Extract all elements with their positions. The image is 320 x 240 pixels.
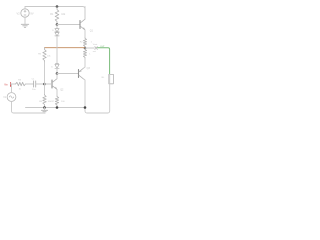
svg-text:out: out bbox=[93, 50, 96, 53]
transistor Q2 (driver NPN) bbox=[52, 74, 57, 97]
wire R3 to C1 bbox=[26, 83, 34, 85]
resistor R5 (feedback upper) bbox=[43, 48, 46, 62]
wire D3 to node bbox=[56, 68, 58, 73]
transistor Q1 (NPN) bbox=[80, 7, 85, 38]
wire node to Q3 base bbox=[57, 73, 78, 75]
voltage source V2 bbox=[21, 9, 29, 17]
node driver collector bbox=[56, 72, 59, 75]
svg-text:9V: 9V bbox=[30, 11, 33, 15]
node output bbox=[84, 47, 87, 50]
wire node to Q2 base bbox=[45, 83, 52, 85]
wire V2 top stub bbox=[24, 7, 26, 9]
resistor R6 (feedback lower) bbox=[44, 84, 46, 95]
wire V1 bottom bbox=[12, 101, 45, 113]
node R1 bottom bbox=[56, 23, 59, 26]
wire C1 to base node bbox=[36, 83, 45, 85]
node Q2 base bbox=[43, 83, 46, 86]
wire flag to R3 bbox=[11, 83, 16, 85]
wire V2 bottom stub bbox=[24, 17, 26, 24]
resistor R2 (Q1 emitter) bbox=[83, 38, 86, 48]
node rail R6 bbox=[43, 106, 46, 109]
diode D2 bbox=[55, 33, 59, 36]
resistor R4 (Q3 emitter) bbox=[83, 48, 86, 59]
wire load bottom bbox=[85, 74, 110, 113]
diode D3 bbox=[55, 64, 59, 69]
wire bottom rail bbox=[26, 107, 86, 109]
wire OUT net (green) bbox=[98, 48, 110, 75]
capacitor C1 bbox=[34, 81, 36, 87]
voltage source V1 (AC) bbox=[7, 93, 16, 102]
wire node to Q1 base bbox=[57, 24, 80, 26]
svg-text:Vout: Vout bbox=[93, 43, 98, 46]
svg-text:OUT: OUT bbox=[100, 46, 105, 48]
load RL box bbox=[109, 74, 114, 83]
resistor R7 (Q2 emitter) bbox=[55, 96, 58, 108]
wire V1 top bbox=[10, 84, 13, 93]
wire node to probe bbox=[85, 47, 94, 49]
wire diode chain bbox=[56, 36, 58, 64]
wire R5 to node bbox=[44, 62, 46, 84]
resistor R3 (input) bbox=[16, 82, 26, 85]
wire output node (orange) bbox=[45, 47, 86, 49]
probe X marker bbox=[95, 47, 98, 50]
node rail Q3 collector bbox=[84, 106, 87, 109]
diode D1 bbox=[55, 25, 59, 32]
ground on rail bbox=[41, 108, 47, 114]
svg-text:V2: V2 bbox=[17, 11, 21, 15]
net flag Vin (red) bbox=[10, 83, 12, 87]
wire top rail bbox=[25, 7, 85, 19]
transistor Q3 (PNP) bbox=[79, 59, 86, 108]
node top rail / R1 bbox=[56, 5, 59, 8]
node rail R7 bbox=[56, 106, 59, 109]
resistor R1 bbox=[55, 7, 59, 25]
ground under V2 bbox=[21, 24, 28, 27]
